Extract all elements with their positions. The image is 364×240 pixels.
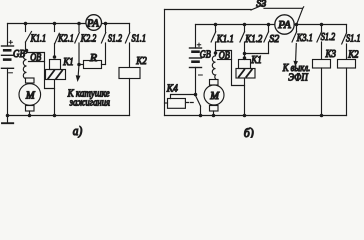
wire S2 to K1 node [245,53,269,55]
wire battery to bottom bus [7,68,9,115]
ammeter PA [86,15,102,31]
junction motor-bus b) [212,114,216,118]
relay coil K2 [119,68,140,116]
contact K2.1 [53,22,60,57]
battery GB [2,41,14,73]
svg-text:S1.2: S1.2 [321,32,336,43]
svg-text:К3: К3 [325,49,336,60]
node K1 top b) [243,56,247,60]
junction K3-bus [320,114,324,118]
left edge wire [164,10,166,116]
node OB top b) [214,51,218,55]
switch S3 [251,5,263,10]
svg-text:ОВ: ОВ [30,52,41,63]
field winding coil OB [23,51,29,81]
junction K1-bus b) [243,114,247,118]
svg-text:S1.1: S1.1 [132,34,147,45]
solenoid relay K1 [46,60,66,116]
wire battery drop [7,24,9,47]
wire top bus left segment [8,23,87,25]
svg-text:ЭФП: ЭФП [288,73,309,84]
svg-text:К3.1: К3.1 [296,33,313,44]
S3 wire to PA node [264,7,304,25]
svg-text:К1.1: К1.1 [30,34,46,45]
motor M b) [204,80,224,116]
junction K1 feed [243,52,247,56]
svg-text:К2.1: К2.1 [58,34,74,45]
OB label box and routed wire to K1 bottom [28,53,55,89]
svg-text:б): б) [244,126,254,138]
svg-text:К1: К1 [62,57,73,68]
svg-text:S1.1: S1.1 [346,33,361,44]
contact K1.1 [24,22,32,51]
svg-text:РА: РА [86,19,100,30]
field winding coil OB b) [212,53,215,81]
arrow to EFP switch [293,44,298,67]
svg-text:К2: К2 [347,49,359,60]
junction motor-bus [28,114,32,118]
svg-text:К1.2: К1.2 [244,34,262,45]
contact S2 [264,23,270,54]
svg-text:R: R [89,53,98,64]
contact K4.1 [196,96,201,116]
junction K4.1-bus [199,114,203,118]
svg-text:К2.2: К2.2 [80,34,97,45]
battery GB b) [190,43,203,75]
svg-text:а): а) [73,124,83,138]
contact S1.2 b) [317,23,323,60]
solenoid relay K1 b) [236,54,255,116]
svg-text:РА: РА [277,20,291,31]
node K1 top [53,55,57,59]
junction K1-bus [53,114,57,118]
contact K3.1 [292,25,297,43]
junction R left [77,63,81,67]
contact K2.2 [75,22,81,65]
motor M [19,78,41,116]
top bus b) right segment [295,24,347,26]
svg-text:ОВ: ОВ [219,50,230,61]
bottom bus b) [165,115,347,117]
mechanical link K4 [186,102,194,104]
junction battery minus node [194,93,198,97]
svg-text:GB: GB [200,49,211,60]
relay coil K2 b) [338,60,356,116]
svg-text:М: М [209,91,220,102]
resistor R [79,61,106,69]
contact K1.1 b) [211,23,217,53]
battery drop b) [195,25,197,49]
wire top bus right segment [101,23,129,25]
battery bottom wire b) [195,68,197,95]
svg-text:зажигания: зажигания [69,98,110,109]
svg-text:К1.1: К1.1 [216,34,234,45]
OB label box and routed wire b) [217,51,245,86]
junction PA right [295,23,299,27]
top bus b) left segment [196,24,276,26]
svg-text:М: М [25,91,36,102]
ammeter PA b) [275,15,294,34]
svg-text:К2: К2 [135,56,147,67]
svg-text:К1: К1 [250,55,261,66]
node OB top [25,49,29,53]
svg-text:S2: S2 [269,34,280,45]
contact S1.1 [125,24,129,68]
arrow to ignition coil [76,65,81,83]
relay coil K3 [313,60,331,116]
contact S1.2 [101,22,107,65]
ground [2,116,13,124]
bottom bus a) [8,115,130,117]
relay coil K4 [165,95,196,109]
junction battery-ground [6,114,10,118]
contact K1.2 [240,23,246,54]
contact S1.1 b) [342,25,347,60]
svg-text:К4: К4 [166,83,179,94]
S3 feed wire [165,9,252,11]
svg-text:S1.2: S1.2 [108,34,123,45]
